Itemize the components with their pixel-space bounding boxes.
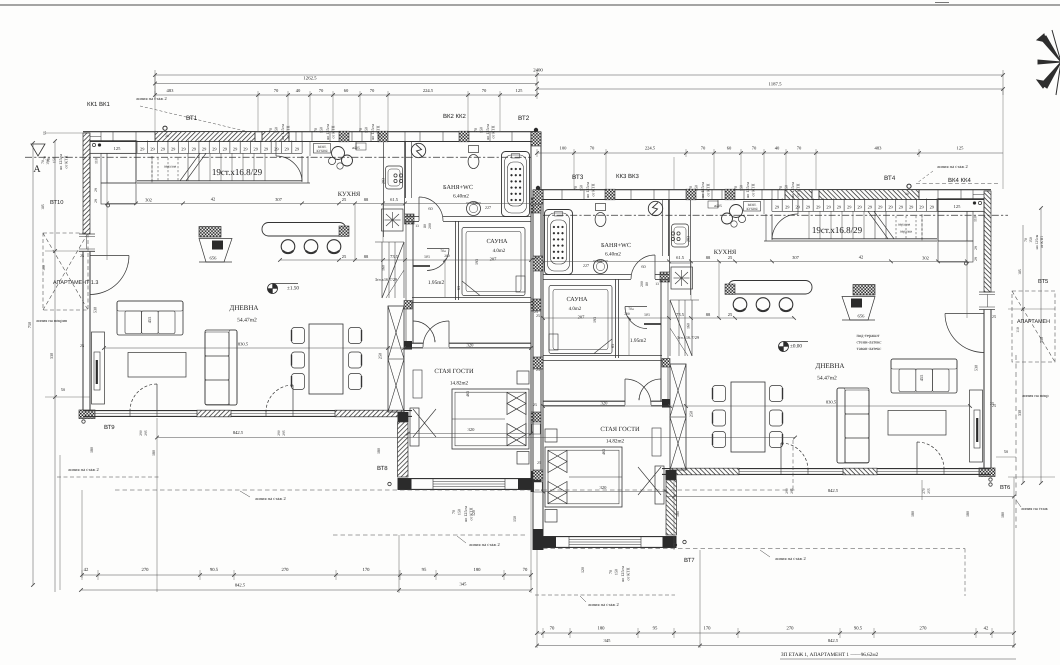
- svg-text:193: 193: [474, 259, 479, 265]
- svg-text:54.47m2: 54.47m2: [237, 318, 257, 324]
- svg-text:70: 70: [319, 88, 324, 93]
- svg-text:60: 60: [344, 88, 349, 93]
- svg-text:150: 150: [479, 127, 484, 133]
- svg-text:±1.50: ±1.50: [287, 286, 299, 292]
- svg-text:ДНЕВНА: ДНЕВНА: [230, 304, 259, 312]
- svg-text:но 125см: но 125см: [463, 506, 468, 522]
- svg-text:455: 455: [147, 316, 152, 323]
- svg-text:40: 40: [296, 88, 301, 93]
- svg-text:25: 25: [992, 403, 996, 408]
- svg-text:19ст.х16.8/29: 19ст.х16.8/29: [212, 167, 263, 177]
- svg-text:227: 227: [583, 263, 589, 268]
- svg-text:530: 530: [93, 307, 98, 313]
- svg-text:стени-латекс: стени-латекс: [857, 340, 882, 345]
- svg-text:150: 150: [512, 516, 517, 522]
- svg-text:1.95m2: 1.95m2: [428, 280, 445, 286]
- svg-text:750: 750: [27, 322, 32, 328]
- svg-text:200: 200: [624, 312, 630, 316]
- svg-text:302: 302: [922, 256, 929, 261]
- svg-text:110: 110: [1016, 327, 1020, 333]
- svg-text:линия на покр: линия на покр: [1022, 393, 1049, 398]
- svg-text:295: 295: [282, 430, 286, 436]
- svg-text:70а: 70а: [440, 249, 446, 253]
- svg-text:70: 70: [590, 146, 595, 151]
- svg-text:150: 150: [1029, 237, 1033, 243]
- svg-text:линия на стаж 2: линия на стаж 2: [68, 467, 99, 472]
- svg-text:50: 50: [1004, 449, 1008, 454]
- svg-text:3ст.х16.7/29: 3ст.х16.7/29: [677, 335, 700, 340]
- svg-text:95: 95: [422, 567, 427, 573]
- svg-text:290: 290: [139, 430, 143, 436]
- svg-text:150: 150: [46, 159, 50, 165]
- svg-text:842.5: 842.5: [235, 583, 246, 588]
- svg-text:70: 70: [1024, 238, 1028, 242]
- svg-text:295: 295: [790, 488, 794, 494]
- svg-text:320: 320: [601, 401, 609, 406]
- svg-text:⌀205: ⌀205: [352, 146, 360, 150]
- svg-text:ВТ9: ВТ9: [104, 424, 115, 431]
- svg-text:42: 42: [984, 626, 989, 632]
- svg-text:200: 200: [444, 254, 450, 258]
- svg-text:170: 170: [362, 567, 370, 573]
- svg-text:283: 283: [686, 236, 691, 242]
- svg-text:80: 80: [423, 224, 427, 228]
- svg-text:1262.5: 1262.5: [303, 76, 317, 82]
- svg-text:290: 290: [785, 488, 789, 494]
- svg-text:125: 125: [114, 146, 122, 151]
- svg-text:42: 42: [211, 197, 216, 202]
- svg-text:150: 150: [319, 127, 324, 133]
- svg-text:455: 455: [919, 374, 924, 381]
- svg-text:13: 13: [655, 282, 659, 286]
- svg-text:но 125см: но 125см: [370, 124, 375, 140]
- svg-text:70а: 70а: [628, 307, 634, 311]
- svg-text:95: 95: [653, 626, 658, 632]
- svg-text:от КТП: от КТП: [796, 183, 801, 196]
- svg-text:120: 120: [471, 510, 476, 516]
- svg-text:463: 463: [601, 449, 606, 455]
- svg-text:207: 207: [578, 315, 586, 320]
- svg-text:2400: 2400: [533, 68, 543, 74]
- svg-text:110: 110: [94, 158, 99, 164]
- svg-text:от КТП: от КТП: [64, 155, 69, 168]
- svg-text:101: 101: [424, 254, 430, 259]
- svg-text:29: 29: [974, 246, 978, 250]
- svg-text:АПАРТАМЕН: АПАРТАМЕН: [1017, 319, 1050, 325]
- svg-text:25: 25: [342, 254, 347, 259]
- svg-text:от КТП: от КТП: [491, 125, 496, 138]
- svg-text:150: 150: [364, 127, 369, 133]
- svg-text:линия на стаж 2: линия на стаж 2: [469, 542, 500, 547]
- svg-text:530: 530: [974, 365, 979, 371]
- svg-text:207: 207: [490, 257, 498, 262]
- svg-text:но 125см: но 125см: [790, 182, 795, 198]
- svg-text:307: 307: [275, 197, 283, 202]
- svg-text:линия на стаж 2: линия на стаж 2: [588, 602, 619, 607]
- svg-text:55: 55: [43, 131, 47, 135]
- svg-text:100: 100: [560, 146, 568, 151]
- svg-text:25: 25: [992, 314, 996, 319]
- svg-text:БАНЯ+WC: БАНЯ+WC: [443, 184, 473, 191]
- svg-text:САУНА: САУНА: [566, 296, 588, 303]
- svg-text:70: 70: [451, 510, 456, 514]
- svg-text:180: 180: [597, 626, 605, 632]
- svg-text:25: 25: [536, 367, 540, 372]
- svg-text:302: 302: [145, 198, 152, 203]
- svg-text:330: 330: [1017, 410, 1022, 416]
- svg-text:таван-латекс: таван-латекс: [857, 346, 882, 351]
- svg-text:307: 307: [792, 255, 800, 260]
- svg-text:270: 270: [141, 567, 149, 573]
- svg-text:25: 25: [728, 255, 733, 260]
- svg-text:от КТП: от КТП: [626, 567, 631, 580]
- svg-text:от КТП: от КТП: [1040, 236, 1044, 248]
- svg-text:61.5: 61.5: [676, 255, 685, 260]
- svg-text:70: 70: [268, 128, 273, 132]
- svg-text:САУНА: САУНА: [486, 238, 508, 245]
- svg-text:70: 70: [473, 128, 478, 132]
- svg-text:180: 180: [910, 511, 915, 517]
- svg-text:255: 255: [927, 488, 931, 494]
- svg-text:⌀205: ⌀205: [714, 204, 722, 208]
- svg-text:пералня: пералня: [164, 165, 177, 169]
- svg-text:ВТ8: ВТ8: [377, 465, 388, 472]
- svg-text:88: 88: [364, 254, 369, 259]
- svg-text:70: 70: [797, 146, 802, 151]
- svg-text:3ст.х16.7/29: 3ст.х16.7/29: [375, 277, 398, 282]
- svg-text:70: 70: [573, 186, 578, 190]
- svg-text:54.47m2: 54.47m2: [817, 376, 837, 382]
- svg-text:250: 250: [378, 353, 383, 359]
- svg-text:от КТП: от КТП: [286, 125, 291, 138]
- svg-text:193: 193: [592, 317, 597, 323]
- svg-text:БАНЯ+WC: БАНЯ+WC: [601, 242, 631, 249]
- svg-text:320: 320: [467, 343, 475, 348]
- svg-text:160: 160: [381, 265, 386, 271]
- svg-text:150: 150: [274, 127, 279, 133]
- svg-text:70: 70: [358, 128, 363, 132]
- svg-text:25: 25: [537, 460, 541, 465]
- svg-text:СТАЯ ГОСТИ: СТАЯ ГОСТИ: [434, 368, 474, 375]
- svg-text:61.5: 61.5: [390, 197, 399, 202]
- svg-text:100: 100: [42, 265, 46, 271]
- svg-text:324: 324: [596, 260, 602, 264]
- svg-text:25: 25: [728, 312, 733, 317]
- svg-text:320: 320: [468, 427, 476, 432]
- svg-text:от КТП: от КТП: [751, 183, 756, 196]
- svg-text:70: 70: [523, 567, 528, 573]
- svg-text:70: 70: [733, 186, 738, 190]
- svg-text:ВТ4: ВТ4: [884, 175, 896, 182]
- svg-text:345: 345: [460, 582, 468, 587]
- svg-text:но 125см: но 125см: [620, 566, 625, 582]
- svg-text:270: 270: [281, 567, 289, 573]
- svg-text:830.5: 830.5: [826, 400, 837, 405]
- svg-text:ДНЕВНА: ДНЕВНА: [816, 362, 845, 370]
- svg-text:40: 40: [775, 146, 780, 151]
- svg-text:320: 320: [600, 485, 608, 490]
- svg-text:842.5: 842.5: [828, 488, 839, 493]
- svg-text:283: 283: [381, 178, 386, 184]
- svg-text:ВТ5: ВТ5: [1038, 279, 1048, 285]
- svg-text:6.40m2: 6.40m2: [453, 194, 469, 200]
- svg-text:270: 270: [919, 626, 927, 632]
- svg-text:180: 180: [965, 511, 970, 517]
- svg-text:110: 110: [973, 216, 978, 222]
- svg-text:73.5: 73.5: [676, 312, 685, 317]
- svg-text:13: 13: [415, 224, 419, 228]
- svg-text:линия на покрив: линия на покрив: [36, 318, 67, 323]
- svg-text:линия на стаж: линия на стаж: [1021, 506, 1049, 511]
- svg-text:70: 70: [274, 88, 279, 93]
- svg-text:АПАРТАМЕНТ 1.3: АПАРТАМЕНТ 1.3: [53, 280, 98, 286]
- svg-text:180: 180: [1000, 512, 1005, 518]
- svg-text:ВТ3: ВТ3: [572, 174, 584, 181]
- svg-text:270: 270: [922, 488, 926, 494]
- svg-text:180: 180: [376, 448, 381, 454]
- svg-text:90.5: 90.5: [854, 626, 863, 632]
- svg-text:но 125см: но 125см: [745, 182, 750, 198]
- svg-text:160: 160: [686, 323, 691, 329]
- svg-text:830.5: 830.5: [238, 342, 249, 347]
- svg-text:60: 60: [641, 264, 645, 269]
- svg-text:25: 25: [534, 309, 538, 314]
- svg-text:656: 656: [858, 314, 866, 319]
- svg-text:70: 70: [550, 626, 555, 632]
- svg-text:842.5: 842.5: [828, 638, 839, 643]
- svg-text:ВТ7: ВТ7: [684, 557, 695, 564]
- svg-text:290: 290: [277, 430, 281, 436]
- svg-text:но 125см: но 125см: [485, 124, 490, 140]
- svg-text:от КТП: от КТП: [331, 125, 336, 138]
- svg-text:150: 150: [739, 185, 744, 191]
- svg-text:250: 250: [689, 411, 694, 417]
- svg-text:750: 750: [1039, 337, 1044, 343]
- svg-text:25: 25: [534, 255, 538, 260]
- svg-text:линия на стаж 2: линия на стаж 2: [937, 164, 968, 169]
- svg-text:29: 29: [94, 188, 98, 192]
- svg-text:150: 150: [614, 569, 619, 575]
- svg-text:125: 125: [516, 88, 524, 93]
- svg-text:пералня: пералня: [898, 223, 911, 227]
- svg-text:50: 50: [61, 387, 65, 392]
- svg-text:но 125см: но 125см: [585, 182, 590, 198]
- svg-text:88: 88: [364, 197, 369, 202]
- svg-text:180: 180: [473, 567, 481, 573]
- svg-text:14.82m2: 14.82m2: [450, 381, 469, 387]
- svg-text:ВТ6: ВТ6: [1000, 484, 1010, 491]
- svg-text:25: 25: [80, 343, 84, 348]
- svg-text:200: 200: [640, 281, 644, 287]
- svg-text:150: 150: [784, 185, 789, 191]
- svg-text:КУХНЯ: КУХНЯ: [746, 207, 758, 211]
- svg-text:463: 463: [465, 391, 470, 397]
- svg-text:но 125см: но 125см: [1035, 234, 1039, 249]
- svg-text:20: 20: [165, 134, 169, 138]
- svg-text:185: 185: [41, 204, 45, 210]
- svg-text:КК3 ВК3: КК3 ВК3: [616, 173, 639, 180]
- svg-text:линия на стаж 2: линия на стаж 2: [775, 556, 806, 561]
- svg-text:А: А: [33, 164, 41, 175]
- svg-text:1.95m2: 1.95m2: [630, 338, 647, 344]
- svg-text:70: 70: [41, 160, 45, 164]
- svg-text:линия на стаж 2: линия на стаж 2: [255, 496, 286, 501]
- svg-text:ВК4 КК4: ВК4 КК4: [948, 177, 971, 184]
- svg-text:СТАЯ ГОСТИ: СТАЯ ГОСТИ: [600, 426, 640, 433]
- svg-text:но 125см: но 125см: [58, 154, 63, 170]
- svg-text:185: 185: [1018, 269, 1022, 275]
- svg-text:25: 25: [80, 253, 84, 258]
- svg-text:от КТП: от КТП: [706, 183, 711, 196]
- svg-text:170: 170: [703, 626, 711, 632]
- svg-text:ЗП ЕТАЖ 1, АПАРТАМЕНТ 1 ——96.6: ЗП ЕТАЖ 1, АПАРТАМЕНТ 1 ——96.62м2: [781, 652, 879, 658]
- svg-text:25: 25: [533, 402, 537, 407]
- svg-text:63: 63: [456, 286, 461, 290]
- svg-text:КУХНЯ: КУХНЯ: [316, 149, 328, 153]
- svg-text:324: 324: [472, 202, 478, 206]
- svg-text:90.5: 90.5: [210, 567, 219, 573]
- svg-text:180: 180: [151, 450, 156, 456]
- svg-text:125: 125: [954, 204, 962, 209]
- svg-text:±0.00: ±0.00: [790, 344, 802, 350]
- svg-text:70: 70: [608, 570, 613, 574]
- svg-text:80: 80: [645, 282, 649, 286]
- svg-text:224.5: 224.5: [645, 146, 656, 151]
- svg-text:4.0m2: 4.0m2: [493, 248, 506, 254]
- svg-text:101: 101: [644, 312, 650, 317]
- svg-text:ВТ1: ВТ1: [186, 115, 198, 122]
- svg-text:656: 656: [210, 256, 218, 261]
- svg-text:224.5: 224.5: [423, 88, 434, 93]
- svg-text:14.82m2: 14.82m2: [606, 439, 625, 445]
- svg-text:150: 150: [694, 185, 699, 191]
- svg-text:25: 25: [342, 197, 347, 202]
- svg-text:ВК2 КК2: ВК2 КК2: [443, 113, 466, 120]
- svg-text:19ст.х16.8/29: 19ст.х16.8/29: [812, 225, 863, 235]
- svg-text:73.5: 73.5: [390, 254, 399, 259]
- svg-text:70: 70: [482, 88, 487, 93]
- svg-text:но 125см: но 125см: [325, 124, 330, 140]
- svg-text:4.0m2: 4.0m2: [569, 306, 582, 312]
- svg-text:от КТП: от КТП: [591, 183, 596, 196]
- svg-text:150: 150: [457, 509, 462, 515]
- svg-text:70: 70: [313, 128, 318, 132]
- svg-text:60: 60: [428, 206, 432, 211]
- svg-text:227: 227: [485, 205, 491, 210]
- svg-text:6.40m2: 6.40m2: [605, 252, 621, 258]
- svg-text:150: 150: [52, 157, 57, 163]
- svg-text:29: 29: [94, 199, 98, 203]
- svg-text:70: 70: [752, 146, 757, 151]
- svg-text:150: 150: [579, 185, 584, 191]
- svg-text:29: 29: [974, 257, 978, 261]
- svg-text:270: 270: [786, 626, 794, 632]
- svg-text:ВТ2: ВТ2: [518, 115, 530, 122]
- svg-text:70: 70: [778, 186, 783, 190]
- svg-text:КК1 ВК1: КК1 ВК1: [87, 101, 110, 108]
- svg-text:но 125см: но 125см: [700, 182, 705, 198]
- svg-text:70: 70: [688, 186, 693, 190]
- svg-text:345: 345: [604, 638, 612, 643]
- svg-text:1187.5: 1187.5: [768, 82, 782, 88]
- svg-text:125: 125: [957, 146, 965, 151]
- svg-text:483: 483: [167, 88, 175, 93]
- svg-text:20: 20: [905, 192, 909, 196]
- svg-text:88: 88: [706, 312, 711, 317]
- svg-text:60: 60: [727, 146, 732, 151]
- svg-text:70: 70: [701, 146, 706, 151]
- svg-text:от КТП: от КТП: [376, 125, 381, 138]
- svg-text:42: 42: [859, 255, 864, 260]
- svg-text:пералки: пералки: [900, 230, 912, 234]
- svg-text:120: 120: [580, 567, 585, 573]
- svg-text:180: 180: [89, 447, 94, 453]
- svg-text:но 125см: но 125см: [280, 124, 285, 140]
- svg-text:180: 180: [675, 511, 680, 517]
- svg-text:200: 200: [428, 223, 432, 229]
- svg-text:330: 330: [49, 353, 54, 359]
- svg-text:63: 63: [610, 344, 615, 348]
- svg-text:КУХНЯ: КУХНЯ: [714, 249, 737, 256]
- svg-text:ВТ10: ВТ10: [50, 199, 63, 206]
- svg-text:842.5: 842.5: [233, 430, 244, 435]
- svg-text:70: 70: [370, 88, 375, 93]
- svg-text:295: 295: [144, 430, 148, 436]
- svg-text:42: 42: [84, 567, 89, 573]
- svg-text:под-теракот: под-теракот: [856, 333, 879, 338]
- svg-text:483: 483: [875, 146, 883, 151]
- svg-text:88: 88: [706, 255, 711, 260]
- svg-text:линия на стаж 2: линия на стаж 2: [136, 96, 167, 101]
